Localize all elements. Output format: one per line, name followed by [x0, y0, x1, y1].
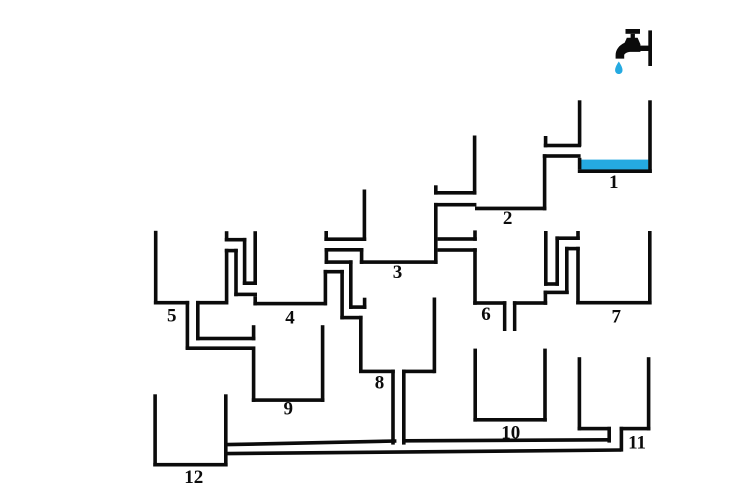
svg-text:9: 9 — [283, 398, 293, 419]
svg-text:11: 11 — [628, 433, 646, 454]
svg-text:6: 6 — [481, 304, 491, 325]
svg-text:12: 12 — [184, 467, 203, 488]
svg-text:4: 4 — [285, 308, 295, 329]
svg-text:5: 5 — [167, 306, 177, 327]
svg-text:7: 7 — [611, 306, 621, 327]
svg-text:8: 8 — [375, 373, 385, 394]
svg-text:3: 3 — [393, 262, 403, 283]
svg-text:10: 10 — [501, 422, 520, 443]
svg-text:2: 2 — [503, 208, 513, 229]
svg-text:1: 1 — [609, 172, 619, 193]
